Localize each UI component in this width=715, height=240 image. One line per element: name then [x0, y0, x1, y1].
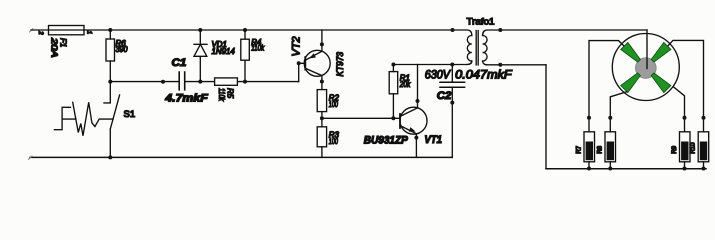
node: C1 pin dot	[161, 80, 165, 84]
svg-text:1: 1	[86, 31, 92, 34]
svg-text:1N914: 1N914	[212, 47, 236, 56]
wire: top rail left segment	[31, 30, 472, 36]
wire: mains input start tick	[30, 29, 34, 33]
wire: HV drop to rotor	[646, 30, 648, 69]
svg-text:C2: C2	[437, 90, 452, 102]
distributor contact lower-right	[651, 73, 671, 93]
svg-text:110k: 110k	[217, 88, 226, 102]
wire: R3 to rail	[321, 147, 323, 158]
VT1 base bar	[399, 114, 401, 128]
svg-text:R10: R10	[690, 142, 697, 154]
svg-text:2: 2	[37, 30, 43, 35]
svg-text:C1: C1	[172, 57, 187, 69]
capacitor C1	[179, 72, 185, 90]
distributor contact upper-left	[621, 42, 641, 62]
svg-text:4.7mkF: 4.7mkF	[164, 92, 208, 104]
svg-text:20A: 20A	[50, 37, 59, 58]
resistor R7	[576, 132, 595, 171]
wire: VT2 base jog	[299, 63, 306, 81]
resistor R1	[389, 72, 398, 94]
svg-text:R7: R7	[576, 145, 583, 153]
svg-text:630V: 630V	[425, 69, 451, 81]
svg-text:110k: 110k	[251, 44, 265, 53]
resistor R8	[597, 132, 616, 171]
node: VD1 bottom junction	[198, 80, 202, 84]
VT1 collector (top)	[400, 65, 418, 117]
distributor cap circle	[612, 34, 679, 101]
switch actuator zigzag	[73, 102, 113, 135]
node: S1 / rail junction	[108, 155, 112, 159]
resistor R3	[317, 127, 326, 147]
distributor contact lower-left	[621, 73, 641, 93]
svg-text:0.047mkF: 0.047mkF	[455, 69, 513, 81]
fuse F1	[49, 26, 85, 35]
wire: terminal lower-left to R8	[610, 92, 626, 132]
svg-text:VT1: VT1	[424, 134, 442, 146]
resistor R10	[690, 132, 709, 171]
transformer core	[476, 31, 478, 66]
svg-text:F1: F1	[59, 38, 68, 47]
svg-text:VT2: VT2	[291, 36, 303, 56]
left rail start tick	[29, 156, 33, 160]
distributor contact upper-right	[651, 42, 671, 62]
wire: base net to VT1	[322, 117, 400, 119]
wire: terminal upper-left to R7	[589, 41, 624, 132]
wire: R2-R3 link	[321, 112, 323, 127]
wire: secondary return riser	[545, 65, 547, 169]
node: mid net / R6 junction	[108, 80, 112, 84]
wire: fuse internal line	[49, 29, 85, 31]
wire: terminal lower-right to R9	[674, 87, 685, 132]
node: trafo pin dots	[451, 28, 455, 32]
VT1 emitter (bottom, arrow out)	[400, 126, 416, 134]
switch actuator bracket	[54, 107, 76, 129]
svg-text:BU931ZP: BU931ZP	[364, 135, 409, 147]
resistor R9	[671, 132, 690, 171]
wire: terminal upper-right to R10	[668, 40, 703, 131]
transistor VT1 (BU931ZP)	[400, 107, 427, 134]
VT2 base bar	[304, 57, 306, 70]
svg-text:S1: S1	[124, 109, 136, 120]
VT2 emitter (top, arrow to base)	[321, 30, 323, 51]
resistor R4	[243, 28, 247, 32]
transformer Trafo1 secondary coil	[483, 35, 488, 61]
svg-text:20k: 20k	[399, 80, 411, 89]
VT2 collector (bottom)	[305, 68, 322, 89]
wire: mid horizontal net (C1 net)	[110, 81, 298, 83]
wire: secondary top curve to HV rail	[483, 30, 647, 36]
wire: bottom left rail	[30, 156, 452, 158]
svg-text:Trafo1: Trafo1	[467, 16, 495, 26]
switch S1	[104, 82, 110, 103]
wire: primary bottom curve	[467, 61, 472, 65]
wire: bottom right rail	[546, 168, 706, 170]
wire: primary bottom net	[393, 61, 471, 65]
svg-text:R8: R8	[597, 145, 604, 153]
capacitor C2	[440, 82, 465, 87]
node: R4/R5 junction	[243, 80, 247, 84]
resistor R2	[317, 90, 326, 112]
transformer Trafo1 primary coil	[467, 35, 472, 61]
distributor rotor	[636, 58, 657, 79]
node: top rail / R6 junction	[108, 28, 112, 32]
svg-text:100: 100	[329, 137, 339, 146]
svg-text:390: 390	[116, 45, 129, 54]
wire: R6 leads	[109, 30, 111, 82]
resistor R5	[215, 78, 238, 85]
svg-text:KT973: KT973	[335, 52, 345, 77]
svg-text:100: 100	[329, 100, 339, 109]
wire: secondary bottom curve	[483, 61, 546, 65]
diode VD1	[198, 28, 202, 32]
resistor R6	[106, 39, 115, 61]
svg-text:R9: R9	[671, 145, 678, 153]
transistor VT2 (KT973)	[304, 50, 330, 76]
